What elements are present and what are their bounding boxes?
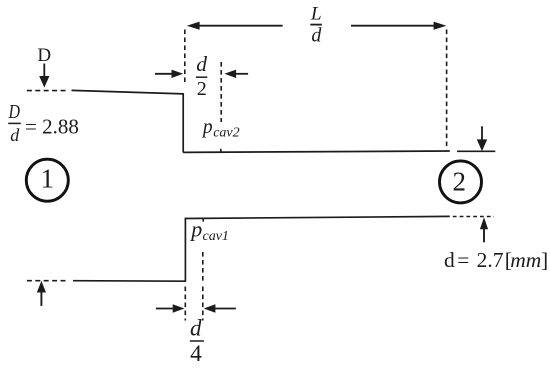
svg-text:2: 2 <box>453 166 467 196</box>
lower wall inlet line <box>73 280 186 283</box>
svg-text:1: 1 <box>41 163 55 193</box>
svg-text:d: d <box>444 248 455 272</box>
dashed tap locator line for p_cav2 <box>220 62 222 122</box>
dashed extension line below step (d/4 left) <box>184 287 186 321</box>
d/4 right-side arrow pointing left <box>204 304 236 312</box>
outlet down arrow to upper wall <box>477 126 487 151</box>
label d = 2.7 [mm] <box>444 248 548 272</box>
station circle 2 <box>440 161 482 203</box>
svg-text:2.7: 2.7 <box>477 248 504 272</box>
dashed extension line at step (left end of L/d) <box>184 30 186 85</box>
d/2 left-side arrow pointing right <box>155 70 183 78</box>
label p_cav1 <box>189 217 229 244</box>
d/2 right-side arrow pointing left <box>224 70 248 78</box>
dashed extension line below tap (d/4 right) <box>202 287 204 321</box>
svg-text:L: L <box>310 3 322 24</box>
svg-text:p: p <box>201 117 213 138</box>
L/d right arrow <box>351 22 446 30</box>
tick of p_cav2 locator at throat wall <box>220 149 222 153</box>
svg-text:mm: mm <box>510 248 541 272</box>
svg-text:= 2.88: = 2.88 <box>25 114 79 138</box>
svg-text:d: d <box>10 125 20 145</box>
svg-text:p: p <box>189 217 202 242</box>
upper wall throat line <box>183 151 450 152</box>
svg-text:D: D <box>37 45 51 66</box>
outlet up arrow to lower wall <box>480 217 488 242</box>
inlet up arrow to lower wall <box>37 281 46 306</box>
upper wall inlet line <box>72 90 184 94</box>
svg-text:d: d <box>311 24 322 46</box>
dashed tap locator line for p_cav1 <box>202 252 204 281</box>
svg-text:D: D <box>8 101 21 123</box>
lower wall throat line <box>185 216 450 218</box>
arrow for D pointing down to upper wall <box>39 64 49 88</box>
svg-text:cav1: cav1 <box>203 229 229 244</box>
station circle 1 <box>26 159 68 201</box>
svg-text:d: d <box>196 52 207 76</box>
svg-text:2: 2 <box>197 78 207 100</box>
upper wall step vertical <box>182 93 184 152</box>
dashed extension line at outlet (right end of L/d) <box>446 30 448 150</box>
upper wall dashed inlet line <box>27 90 68 92</box>
fraction label d/4 <box>190 315 204 367</box>
svg-text:cav2: cav2 <box>213 126 239 141</box>
d/4 left-side arrow pointing right <box>156 304 185 312</box>
fraction label L/d <box>310 3 322 46</box>
lower wall dashed inlet line <box>27 280 67 282</box>
svg-text:d: d <box>190 315 202 340</box>
tick of p_cav1 locator at throat wall <box>202 218 204 222</box>
lower wall dashed outlet line <box>453 216 494 218</box>
lower wall step vertical <box>184 218 186 282</box>
svg-text:=: = <box>457 248 469 272</box>
fraction label d/2 <box>196 52 207 100</box>
label p_cav2 <box>201 117 240 141</box>
fraction label D/d = 2.88 <box>8 101 79 145</box>
svg-text:]: ] <box>541 248 548 272</box>
svg-text:4: 4 <box>190 341 202 367</box>
upper wall outlet short line <box>457 150 495 152</box>
L/d left arrow <box>187 22 283 30</box>
